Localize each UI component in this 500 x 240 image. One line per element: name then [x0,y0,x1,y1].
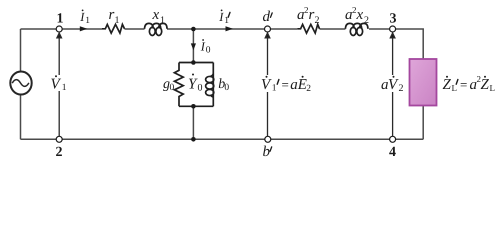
svg-text:d: d [263,9,271,25]
arrow I0 [191,43,196,50]
shunt top bar [179,62,213,64]
svg-text:1: 1 [160,15,165,26]
resistor r1 [102,24,125,33]
label ZL'=a2ZL [443,74,496,93]
label a2r2 [297,5,320,26]
svg-text:2: 2 [56,145,63,160]
svg-text:0: 0 [224,83,229,93]
svg-text:1: 1 [85,16,90,26]
svg-text:3: 3 [390,12,397,27]
label b' [263,144,272,160]
svg-text:=: = [460,77,467,92]
node 1 [56,26,62,32]
node d' [265,26,271,32]
wire right rail bottom [422,106,424,140]
svg-text:=: = [282,77,289,92]
svg-text:2: 2 [306,84,311,94]
label x1 [152,7,166,26]
svg-text:1: 1 [57,12,64,27]
node 2 [56,136,62,142]
ac source V1 [10,72,31,95]
svg-text:a: a [290,77,298,93]
inductor a2x2 [345,23,368,35]
label V1 [50,75,67,93]
label a2x2 [345,5,369,26]
label I1 [79,10,90,27]
node 3 [390,26,396,32]
svg-text:1: 1 [62,83,67,93]
svg-text:1: 1 [115,15,120,26]
junction bottom [191,137,196,142]
svg-text:b: b [263,144,271,160]
label aV2 [381,75,404,94]
wire top right [320,29,424,59]
svg-text:2: 2 [364,15,369,26]
label Y0 [188,74,203,94]
wire shunt drop [192,29,194,63]
load box ZL' [410,59,437,106]
wire left rail [20,29,22,139]
label I0 [200,39,211,55]
shunt bottom bar [179,105,213,107]
svg-text:x: x [356,7,364,23]
label r1 [109,7,120,26]
arrow V1' (vertical) [265,33,270,139]
arrow aV2 (vertical) [390,33,395,139]
arrow V1 (vertical) [57,33,62,139]
junction top [191,27,196,32]
label b0 [218,77,229,93]
svg-text:0: 0 [198,83,203,94]
resistor a2r2 [297,24,319,33]
inductor b0 (vertical) [206,63,214,107]
junction shunt top [191,60,196,65]
arrow I1 [80,26,88,31]
svg-text:L: L [490,83,496,93]
svg-text:4: 4 [389,145,396,160]
wire top middle (x1 to a2r2) [125,28,298,30]
svg-text:0: 0 [206,45,211,55]
junction shunt bottom [191,104,196,109]
svg-text:Z: Z [481,77,490,93]
wire shunt to bottom [192,106,194,139]
wire top left horizontal [21,28,103,30]
label I1' [218,10,230,27]
svg-text:1: 1 [272,84,277,94]
svg-text:0: 0 [170,83,175,93]
svg-text:x: x [152,7,160,23]
node 4 [390,136,396,142]
resistor g0 (vertical) [174,63,183,107]
label V1'=aE2 [260,75,311,94]
label g0 [163,77,175,93]
wire bottom rail [21,138,424,140]
inductor x1 [145,23,168,35]
arrow I1' [226,26,234,31]
label d' [263,9,273,25]
svg-text:2: 2 [315,15,320,26]
node b' [265,136,271,142]
svg-text:2: 2 [399,83,404,94]
svg-text:Z: Z [443,77,452,93]
